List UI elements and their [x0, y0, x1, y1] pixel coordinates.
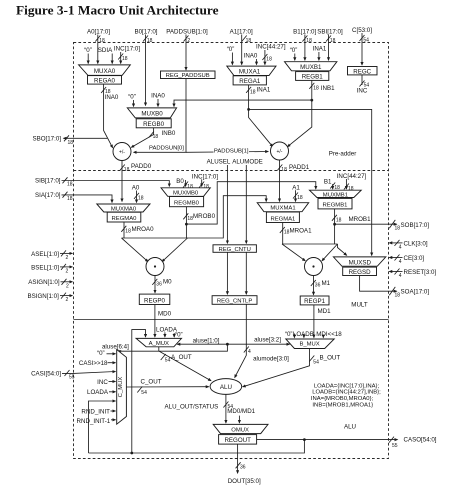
svg-text:CASI>>18: CASI>>18: [79, 360, 108, 367]
node MROB0 junction: [185, 223, 188, 226]
svg-text:18: 18: [122, 56, 128, 62]
svg-text:B0: B0: [176, 178, 184, 185]
svg-text:RND_INIT-1: RND_INIT-1: [77, 418, 111, 425]
svg-text:18: 18: [68, 140, 74, 146]
wire SBI: [328, 35, 330, 61]
svg-text:MUXMB1: MUXMB1: [323, 192, 348, 198]
svg-text:REGSD: REGSD: [349, 269, 372, 276]
wire PADDSUB[1]: [186, 151, 268, 154]
svg-text:CASO[54:0]: CASO[54:0]: [404, 437, 437, 444]
adder circle 1: [271, 142, 289, 160]
multiplier M1: [305, 258, 323, 276]
svg-text:A1: A1: [292, 184, 300, 191]
register REG_CNTU: [213, 245, 256, 253]
wire A_OUT: [159, 347, 211, 381]
svg-text:MROA1: MROA1: [290, 227, 313, 234]
wire M0 funnel: [122, 237, 188, 239]
svg-text:CASI[54:0]: CASI[54:0]: [31, 371, 61, 378]
svg-text:INB={MROB1,MROA1}: INB={MROB1,MROA1}: [312, 403, 373, 409]
svg-text:OMUX: OMUX: [231, 427, 249, 433]
register REGOUT: [219, 435, 257, 445]
mux MUXB1: [285, 62, 337, 71]
svg-text:INC[17:0]: INC[17:0]: [192, 173, 218, 180]
svg-text:MUXA0: MUXA0: [94, 68, 116, 75]
wire feedback to C_MUX: [89, 401, 116, 453]
svg-text:36: 36: [156, 281, 162, 287]
svg-text:RND_INIT: RND_INIT: [81, 408, 110, 415]
svg-text:aluse[3:2]: aluse[3:2]: [254, 337, 281, 344]
svg-text:2: 2: [66, 255, 69, 261]
svg-text:C_MUX: C_MUX: [118, 377, 124, 398]
svg-text:“0”: “0”: [227, 46, 235, 53]
svg-text:54: 54: [313, 360, 319, 366]
svg-text:INC[44:27]: INC[44:27]: [337, 173, 367, 180]
wire alumode[3:0] to ALU: [235, 304, 247, 377]
wire MROA0 cascade to MUXMA1: [188, 196, 267, 238]
wire MD0: [154, 305, 156, 338]
svg-text:18: 18: [336, 217, 342, 223]
svg-text:B1: B1: [324, 178, 332, 185]
register REG_CNTLP: [212, 296, 257, 305]
wire cntu to cntlp: [226, 252, 228, 294]
svg-text:“0”: “0”: [285, 331, 293, 338]
svg-text:REGMB1: REGMB1: [323, 203, 348, 209]
wire INB0: [131, 128, 153, 148]
svg-text:18: 18: [266, 57, 272, 63]
svg-text:4: 4: [399, 245, 402, 251]
mux A_MUX: [136, 338, 181, 346]
svg-text:BSEL[1:0]: BSEL[1:0]: [31, 264, 59, 271]
wire paddsub: [185, 35, 187, 70]
register REGP1: [300, 296, 329, 305]
svg-text:REG_PADDSUB: REG_PADDSUB: [166, 73, 210, 79]
svg-text:18: 18: [147, 38, 153, 44]
svg-text:LOADA={INC[17:0],INA};: LOADA={INC[17:0],INA};: [314, 383, 380, 389]
wire MROA1: [282, 223, 284, 245]
svg-text:18: 18: [395, 226, 401, 232]
svg-text:LOADB={INC[44:27],INB};: LOADB={INC[44:27],INB};: [312, 390, 381, 396]
svg-text:MD1: MD1: [318, 308, 332, 315]
svg-text:ASIGN[1:0]: ASIGN[1:0]: [28, 279, 60, 286]
register REGMB1: [318, 198, 352, 209]
svg-text:B_MUX: B_MUX: [299, 342, 319, 348]
wire MROB0: [185, 207, 187, 238]
mux OMUX: [213, 424, 268, 433]
svg-text:18: 18: [138, 195, 144, 201]
mux MUXMA1: [257, 203, 309, 212]
svg-text:REGC: REGC: [353, 68, 371, 75]
register REGMA0: [107, 212, 141, 222]
node caso junction: [303, 438, 306, 441]
node INB1 junction: [310, 99, 313, 102]
svg-text:REGMA0: REGMA0: [112, 216, 138, 222]
register REGB0: [136, 119, 171, 128]
svg-text:18: 18: [306, 38, 312, 44]
svg-text:PADD0: PADD0: [131, 163, 152, 170]
svg-text:18: 18: [313, 86, 319, 92]
output CASO[54:0]: [257, 439, 398, 441]
register REGMA1: [266, 212, 299, 223]
svg-text:INB1: INB1: [321, 85, 335, 92]
svg-text:2: 2: [66, 297, 69, 303]
svg-text:MROB0: MROB0: [193, 213, 216, 220]
svg-text:SIA[17:0]: SIA[17:0]: [35, 192, 61, 199]
register REGC: [348, 67, 378, 75]
svg-text:ALU: ALU: [344, 424, 356, 431]
wire INB1 feedback to muxb0: [174, 100, 312, 106]
svg-text:INC[44:27]: INC[44:27]: [256, 44, 286, 51]
svg-text:INA={MROB0,MROA0};: INA={MROB0,MROA0};: [311, 396, 374, 402]
svg-text:Figure 3-1 Macro Unit Architec: Figure 3-1 Macro Unit Architecture: [16, 4, 219, 18]
mux B_MUX: [286, 339, 334, 349]
alu ALU: [210, 379, 242, 395]
multiplier M0: [146, 258, 164, 276]
svg-text:ALUSEL: ALUSEL: [207, 159, 231, 166]
node INA1 junction: [247, 108, 250, 111]
svg-text:+/-: +/-: [277, 149, 283, 155]
svg-text:36: 36: [240, 465, 246, 471]
svg-text:“0”: “0”: [128, 94, 136, 101]
svg-text:A_OUT: A_OUT: [171, 354, 192, 361]
wire A0: [97, 35, 99, 64]
svg-text:18: 18: [67, 196, 73, 202]
mux MUXMB1: [310, 190, 362, 197]
svg-text:REGB0: REGB0: [143, 121, 165, 128]
svg-text:SDIA: SDIA: [98, 47, 113, 54]
dashed divider pre-adder/mult: [74, 170, 389, 172]
svg-text:MUXMB0: MUXMB0: [173, 191, 199, 197]
svg-text:REGMA1: REGMA1: [270, 216, 295, 222]
svg-text:A0[17:0]: A0[17:0]: [87, 29, 110, 36]
wire INA0: [104, 84, 113, 148]
svg-text:REG_CNTLP: REG_CNTLP: [217, 299, 252, 305]
svg-text:MUXSD: MUXSD: [349, 259, 372, 266]
svg-text:SBO[17:0]: SBO[17:0]: [32, 136, 61, 143]
svg-text:MUXB0: MUXB0: [141, 111, 163, 118]
svg-text:INC: INC: [357, 88, 368, 95]
wire SIA to MUXMA0: [62, 195, 113, 203]
wire C: [361, 33, 363, 65]
svg-text:INB0: INB0: [162, 130, 176, 137]
svg-text:18: 18: [246, 38, 252, 44]
wire feedback to A_MUX: [132, 330, 146, 453]
svg-text:RESET[3:0]: RESET[3:0]: [404, 269, 437, 276]
svg-text:54: 54: [165, 358, 171, 364]
svg-text:A0: A0: [132, 185, 140, 192]
svg-text:“0”: “0”: [84, 47, 92, 54]
svg-text:BSIGN[1:0]: BSIGN[1:0]: [28, 293, 60, 300]
svg-text:B_OUT: B_OUT: [320, 355, 341, 362]
svg-text:REGOUT: REGOUT: [224, 437, 251, 444]
svg-text:18: 18: [395, 293, 401, 299]
svg-text:REGP1: REGP1: [304, 298, 326, 305]
svg-text:18: 18: [99, 38, 105, 44]
mux MUXMA0: [97, 204, 150, 212]
wire MROB0 cascade to MUXMB1: [186, 182, 315, 224]
wire INB1: [288, 80, 312, 146]
svg-text:Pre-adder: Pre-adder: [329, 151, 357, 158]
output SOB[17:0]: [335, 223, 397, 225]
mux MUXA1: [227, 66, 276, 75]
wire ALUSEL: [226, 165, 228, 243]
svg-text:REGB1: REGB1: [302, 74, 324, 81]
svg-text:MDI<<18: MDI<<18: [316, 331, 342, 338]
svg-text:REG_CNTU: REG_CNTU: [218, 247, 250, 253]
wire PADD1: [279, 160, 281, 201]
svg-text:18: 18: [250, 90, 256, 96]
svg-text:ASEL[1:0]: ASEL[1:0]: [31, 251, 59, 258]
wire B0: [145, 35, 147, 106]
svg-text:36: 36: [315, 283, 321, 289]
svg-text:SIB[17:0]: SIB[17:0]: [35, 178, 61, 185]
wire A1: [241, 35, 243, 65]
svg-text:aluse[6:4]: aluse[6:4]: [102, 344, 129, 351]
svg-text:A1[17:0]: A1[17:0]: [230, 29, 253, 36]
svg-text:MD0: MD0: [158, 311, 172, 318]
svg-text:MUXMA1: MUXMA1: [270, 206, 295, 212]
svg-text:LOADB: LOADB: [293, 331, 314, 338]
svg-text:MULT: MULT: [351, 302, 368, 309]
svg-text:SBI[17:0]: SBI[17:0]: [317, 29, 343, 36]
outer dashed box: [74, 43, 389, 459]
mux MUXB0: [127, 108, 176, 118]
svg-text:18: 18: [124, 167, 130, 173]
wire MROA0: [123, 222, 125, 238]
wire INA1 cascade to MUXSD: [249, 109, 372, 255]
wire SIB to MUXMB0: [62, 181, 170, 187]
svg-text:MROA0: MROA0: [132, 226, 155, 233]
output DOUT[35:0]: [237, 444, 239, 473]
svg-text:18: 18: [297, 195, 303, 201]
register REGA1: [233, 76, 266, 85]
svg-text:alumode[3:0]: alumode[3:0]: [253, 355, 289, 362]
svg-text:SOA[17:0]: SOA[17:0]: [401, 289, 430, 296]
svg-text:INA0: INA0: [244, 53, 258, 60]
svg-text:B0[17:0]: B0[17:0]: [134, 29, 157, 36]
svg-text:REGP0: REGP0: [144, 297, 166, 304]
svg-text:18: 18: [281, 167, 287, 173]
svg-text:“0”: “0”: [290, 47, 298, 54]
svg-text:A_MUX: A_MUX: [149, 341, 169, 347]
svg-text:+/-: +/-: [119, 150, 125, 156]
solid divider mult/alu: [74, 319, 389, 321]
wire B1: [304, 35, 306, 61]
wire MROB1 to MUXSD: [338, 244, 347, 255]
svg-text:54: 54: [363, 38, 369, 44]
svg-text:ALU_OUT/STATUS: ALU_OUT/STATUS: [165, 404, 219, 411]
node feedback junction: [130, 452, 133, 455]
mux MUXSD: [333, 257, 385, 266]
wire M0: [154, 276, 156, 293]
register REG_PADDSUB: [161, 71, 216, 79]
slash 18: [95, 36, 100, 42]
wire ALUMODE: [245, 165, 247, 243]
svg-text:REGMB0: REGMB0: [174, 200, 200, 206]
register REGMB0: [170, 197, 204, 207]
svg-text:2: 2: [187, 38, 190, 44]
svg-text:INA1: INA1: [257, 87, 271, 94]
svg-text:55: 55: [69, 375, 75, 381]
register REGB1: [296, 72, 329, 81]
svg-text:PADD1: PADD1: [289, 164, 310, 171]
svg-text:INC[17:0]: INC[17:0]: [114, 46, 140, 53]
wire ALU_OUT: [225, 394, 227, 423]
svg-text:PADDSUN[0]: PADDSUN[0]: [149, 146, 184, 152]
svg-text:18: 18: [153, 134, 159, 140]
svg-text:REGA0: REGA0: [94, 77, 116, 84]
mux MUXA0: [79, 65, 131, 75]
register REGA0: [88, 76, 122, 85]
svg-text:2: 2: [66, 283, 69, 289]
adder circle 0: [113, 143, 131, 161]
svg-text:DOUT[35:0]: DOUT[35:0]: [228, 478, 261, 485]
svg-text:LOADA: LOADA: [87, 389, 109, 396]
wire INC bus stub: [361, 75, 363, 85]
wire INA1: [249, 85, 273, 147]
svg-text:ALU: ALU: [220, 384, 232, 391]
svg-text:54: 54: [141, 390, 147, 396]
svg-text:MUXA1: MUXA1: [239, 68, 261, 75]
svg-text:INA0: INA0: [105, 94, 119, 101]
mux MUXMB0: [161, 188, 210, 197]
svg-text:aluse[1:0]: aluse[1:0]: [193, 337, 220, 344]
svg-text:4: 4: [248, 349, 251, 355]
svg-text:B1[17:0]: B1[17:0]: [293, 29, 316, 36]
svg-text:MUXMA0: MUXMA0: [111, 207, 137, 213]
svg-text:18: 18: [67, 182, 73, 188]
svg-text:PADDSUB[1:0]: PADDSUB[1:0]: [166, 29, 208, 36]
svg-text:CE[3:0]: CE[3:0]: [404, 255, 425, 262]
svg-text:55: 55: [392, 443, 398, 449]
svg-text:MUXB1: MUXB1: [300, 64, 322, 71]
svg-text:2: 2: [66, 269, 69, 275]
output SOA[17:0]: [360, 276, 397, 292]
svg-text:“0”: “0”: [175, 331, 183, 338]
wire MROB1: [334, 209, 336, 244]
register REGP0: [139, 294, 170, 304]
svg-text:REGA1: REGA1: [239, 78, 261, 85]
svg-text:ALUMODE: ALUMODE: [232, 159, 263, 166]
svg-text:M0: M0: [163, 279, 172, 286]
svg-text:C_OUT: C_OUT: [141, 379, 162, 386]
svg-text:4: 4: [399, 259, 402, 265]
svg-text:INC: INC: [97, 379, 108, 386]
mux C_MUX: [117, 350, 127, 425]
wire MD1: [313, 305, 315, 338]
svg-text:MD0/MD1: MD0/MD1: [227, 408, 255, 415]
svg-text:“0”: “0”: [97, 350, 105, 357]
svg-text:INA1: INA1: [313, 46, 327, 53]
register REGSD: [343, 267, 377, 275]
svg-text:4: 4: [399, 273, 402, 279]
wire PADD0: [121, 161, 123, 202]
node MROB1 junction: [333, 223, 336, 226]
svg-text:PADDSUB[1]: PADDSUB[1]: [214, 148, 249, 154]
wire B_OUT: [243, 349, 310, 387]
wire C_OUT: [126, 386, 208, 388]
svg-text:CLK[3:0]: CLK[3:0]: [404, 241, 428, 248]
svg-text:MROB1: MROB1: [349, 216, 372, 223]
svg-text:18: 18: [330, 38, 336, 44]
wire output feedback: [89, 440, 305, 453]
svg-text:18: 18: [125, 228, 131, 234]
wire M1 funnel: [282, 243, 338, 245]
svg-text:M1: M1: [322, 280, 331, 287]
wire M1: [313, 276, 315, 295]
svg-text:SOB[17:0]: SOB[17:0]: [401, 222, 430, 229]
svg-text:INA0: INA0: [151, 93, 165, 100]
svg-text:C[53:0]: C[53:0]: [352, 27, 372, 34]
